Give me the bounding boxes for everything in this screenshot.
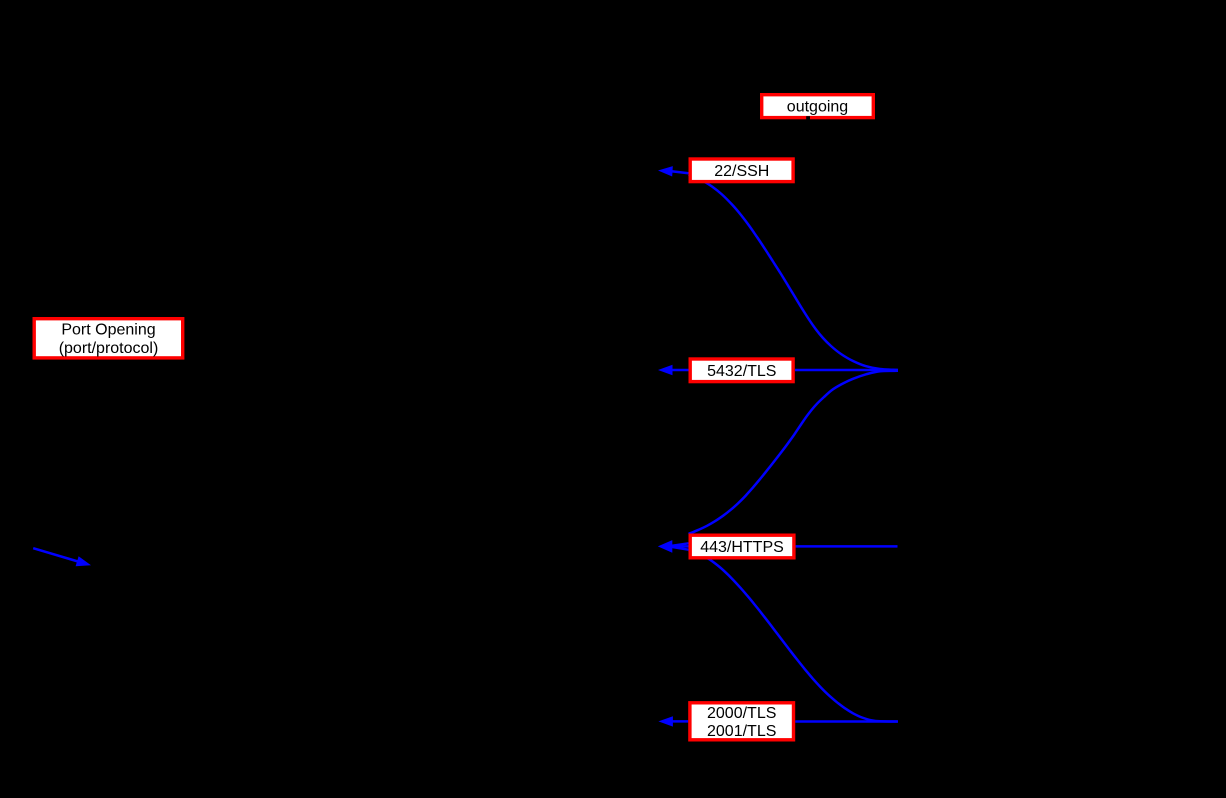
wire edge D: source2 straight to 443/HTTPS right segment: [796, 545, 898, 548]
arrowhead cluster at 443/HTTPS: [658, 540, 673, 553]
svg-text:Port Opening: Port Opening: [61, 322, 155, 339]
svg-text:(port/protocol): (port/protocol): [59, 340, 159, 357]
legend arrow bottom-left: [33, 548, 78, 561]
wire edge A: source1 to 22/SSH curve: [689, 175, 899, 370]
wire edge E: source3 to 443/HTTPS S-curve: [689, 550, 899, 721]
wire edge F left shaft: [670, 720, 688, 723]
svg-text:443/HTTPS: 443/HTTPS: [700, 539, 784, 556]
label box 2000/TLS 2001/TLS: [690, 703, 794, 740]
arrowhead edge F at 2000/2001: [658, 716, 673, 726]
svg-text:5432/TLS: 5432/TLS: [707, 363, 776, 380]
wire edge B left shaft: [671, 369, 689, 372]
wire edge C: source1 to 443/HTTPS curve: [689, 371, 899, 534]
label box 5432/TLS: [690, 359, 793, 382]
wire edge F: source3 straight to 2000/2001 right segment: [795, 720, 897, 723]
wire edge C left shaft: [672, 543, 689, 546]
svg-text:22/SSH: 22/SSH: [714, 163, 769, 180]
label box 443/HTTPS: [690, 535, 794, 558]
label box 22/SSH: [690, 159, 793, 182]
wire edge E left shaft: [672, 547, 689, 550]
wire edge D left shaft: [671, 545, 689, 548]
black edge stub under outgoing box: [806, 116, 810, 120]
node box: Port Opening legend: [34, 319, 183, 358]
svg-text:2001/TLS: 2001/TLS: [707, 723, 776, 740]
svg-text:outgoing: outgoing: [787, 99, 848, 116]
arrowhead edge B at 5432/TLS: [658, 365, 673, 375]
arrowhead edge A at 22/SSH: [658, 166, 673, 176]
node box: outgoing legend: [762, 95, 874, 118]
wire edge A left shaft: [672, 171, 689, 173]
svg-text:2000/TLS: 2000/TLS: [707, 705, 776, 722]
wire edge B: source1 straight to 5432/TLS right segment: [795, 369, 898, 372]
